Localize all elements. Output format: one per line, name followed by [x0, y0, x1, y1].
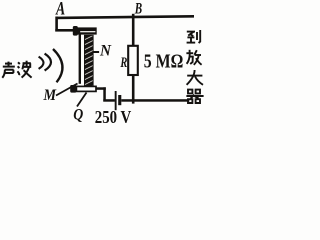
- wire: from resistor down to bottom rail (with junction overshoot): [132, 75, 135, 104]
- svg-text:N: N: [99, 42, 112, 59]
- 器: [188, 90, 192, 94]
- wire: from top rail at B down to resistor: [132, 14, 135, 46]
- svg-text:B: B: [134, 0, 142, 17]
- 到: [187, 31, 195, 33]
- 声: [5, 63, 12, 65]
- svg-text:Q: Q: [73, 107, 83, 124]
- wire: bottom rail from battery to right terminal: [121, 99, 189, 102]
- microphone bottom clamp knob: [70, 85, 76, 93]
- sound wave arcs: [39, 57, 44, 69]
- 大: [187, 75, 202, 77]
- text 声波 (sound wave), hand-drawn strokes: [2, 61, 31, 78]
- 放: [189, 50, 191, 53]
- wire: vertical down to bottom rail: [103, 87, 106, 101]
- wire: vertical drop at A: [55, 17, 58, 32]
- svg-text:M: M: [43, 87, 58, 104]
- battery long plate (positive): [115, 91, 117, 110]
- label N with pointer: [93, 51, 100, 53]
- vertical text 到放大器 (to amplifier), hand-drawn strokes: [186, 30, 203, 103]
- membrane plate M (thin vertical line): [79, 34, 81, 83]
- svg-text:5 MΩ: 5 MΩ: [144, 52, 184, 73]
- wire: bottom rail left segment to battery: [103, 99, 115, 102]
- label Q with pointer: [77, 93, 87, 107]
- wire: horizontal from A drop to microphone top clamp: [55, 29, 74, 32]
- fixed plate N (hatched rectangle): [80, 34, 96, 92]
- svg-text:250 V: 250 V: [95, 107, 132, 127]
- wire: from bottom clamp right side: [96, 87, 106, 90]
- svg-text:R: R: [120, 55, 128, 71]
- microphone top clamp bar: [78, 27, 97, 34]
- circuit schematic: condenser microphone with resistor R, battery 250V, output to amplifier: [0, 0, 216, 128]
- microphone top clamp knob: [73, 26, 78, 36]
- resistor R (box): [128, 46, 138, 75]
- wire: top rail from node A to right terminal: [56, 16, 195, 18]
- label M with pointer: [56, 84, 78, 96]
- 波: [18, 62, 20, 64]
- battery short plate (negative): [118, 95, 121, 105]
- microphone bottom clamp bar: [76, 86, 96, 91]
